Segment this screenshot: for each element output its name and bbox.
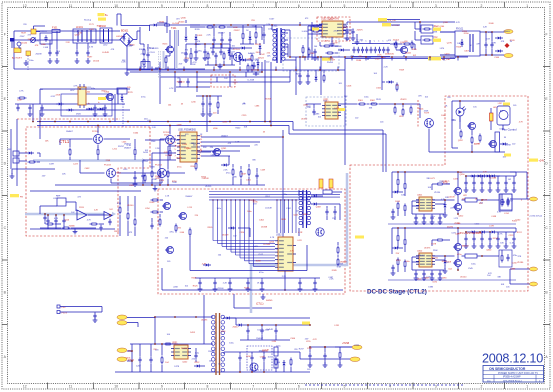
svg-text:CN2: CN2 (7, 149, 12, 151)
red dashed link H (417, 100, 419, 128)
capacitor C501 (139, 357, 141, 360)
svg-text:C223: C223 (509, 235, 515, 237)
wire IC1 hookup (310, 26, 312, 31)
svg-text:C590: C590 (34, 41, 40, 43)
svg-text:2008.12.10: 2008.12.10 (482, 352, 543, 366)
wire U301 out (338, 103, 357, 105)
svg-text:33K: 33K (369, 107, 373, 109)
wire out taps (510, 171, 527, 173)
diode D140 (56, 103, 59, 105)
svg-text:473: 473 (228, 143, 232, 145)
resistor R41b (404, 182, 406, 184)
transistor Q602 (490, 141, 497, 148)
svg-text:4.7K: 4.7K (164, 152, 169, 154)
resistor R301 (358, 103, 360, 105)
svg-text:4.7K: 4.7K (89, 46, 94, 48)
svg-text:SGND: SGND (266, 300, 273, 302)
subcircuit box R41 (499, 194, 512, 211)
svg-text:104: 104 (487, 275, 491, 277)
svg-text:220: 220 (210, 147, 214, 149)
wire K bottom bus (195, 277, 320, 279)
svg-text:ZD417: ZD417 (233, 327, 240, 329)
svg-text:105: 105 (185, 49, 189, 51)
svg-text:C249: C249 (17, 99, 23, 101)
boxed resistor R141 (421, 36, 433, 44)
svg-text:LL4148: LL4148 (248, 80, 256, 82)
svg-text:U201 FSDM0565: U201 FSDM0565 (178, 130, 196, 132)
aux winding parts (176, 86, 210, 88)
svg-text:5: 5 (175, 149, 177, 151)
svg-text:105: 105 (232, 46, 236, 48)
svg-text:R529: R529 (399, 70, 405, 72)
svg-text:Q201: Q201 (221, 148, 227, 150)
connector fuse box top (31, 29, 36, 34)
resistor R42d (436, 239, 438, 241)
resistor R212 (151, 170, 153, 172)
svg-text:ZD220: ZD220 (454, 223, 461, 225)
svg-text:L530: L530 (272, 341, 277, 343)
svg-text:ZD166: ZD166 (218, 288, 225, 290)
wire aux row (40, 88, 130, 90)
wire M secondary (224, 351, 300, 353)
shunt U502 (275, 358, 277, 360)
svg-text:D497: D497 (49, 163, 55, 165)
svg-text:12: 12 (23, 4, 27, 8)
svg-text:105: 105 (145, 150, 149, 152)
svg-text:470u: 470u (283, 194, 287, 196)
svg-text:10: 10 (114, 4, 118, 8)
svg-text:104: 104 (167, 334, 171, 336)
diode D41l (392, 191, 395, 193)
wire U201 left pins (160, 138, 176, 140)
svg-text:470u: 470u (513, 255, 517, 257)
svg-text:A: A (4, 355, 7, 359)
svg-text:ZD299: ZD299 (320, 37, 327, 39)
svg-text:1K: 1K (246, 30, 249, 32)
net label P5V (117, 315, 127, 320)
svg-text:1N4007: 1N4007 (124, 148, 132, 150)
svg-text:0.1R: 0.1R (337, 267, 342, 269)
capacitor C104 (204, 49, 206, 52)
svg-text:2.2K: 2.2K (223, 283, 228, 285)
svg-text:2.2K: 2.2K (152, 127, 157, 129)
svg-text:10K: 10K (192, 64, 196, 66)
svg-text:10K: 10K (500, 242, 504, 244)
capacitor C301 (313, 109, 315, 112)
diode D303 (228, 227, 231, 229)
subcircuit box L (500, 194, 512, 210)
svg-text:L583: L583 (442, 277, 447, 279)
svg-text:12: 12 (23, 385, 27, 389)
svg-text:25V: 25V (253, 204, 257, 206)
svg-text:ZD140: ZD140 (21, 42, 28, 44)
svg-text:L251: L251 (113, 149, 118, 151)
svg-text:10K: 10K (45, 141, 49, 143)
svg-text:100u: 100u (91, 88, 95, 90)
resistor R42b (404, 238, 406, 240)
svg-text:+5VSB: +5VSB (342, 343, 350, 345)
svg-text:25V: 25V (396, 253, 400, 255)
wire left mid (37, 152, 40, 154)
svg-text:A: A (545, 355, 548, 359)
svg-text:4.7K: 4.7K (456, 22, 461, 24)
svg-text:R445: R445 (206, 58, 212, 60)
wire vcc top (196, 95, 222, 97)
resistor R330 (337, 246, 339, 248)
svg-text:LL4148: LL4148 (262, 330, 270, 332)
resistor R206 (247, 64, 249, 66)
svg-text:104: 104 (168, 105, 172, 107)
svg-text:D103: D103 (197, 35, 203, 37)
capacitor C510 (247, 328, 249, 331)
net label LED yellow (433, 39, 441, 42)
svg-text:104: 104 (165, 362, 169, 364)
svg-text:ZD292: ZD292 (447, 227, 454, 229)
svg-text:R371: R371 (396, 260, 402, 262)
svg-text:ZD389: ZD389 (181, 348, 188, 350)
capacitor C141 (41, 105, 43, 108)
wire K bottom rail (162, 289, 343, 291)
svg-text:ZD158: ZD158 (450, 58, 457, 60)
svg-text:220K: 220K (451, 120, 456, 122)
svg-text:1N4007: 1N4007 (256, 338, 264, 340)
svg-text:C: C (4, 226, 7, 230)
svg-text:4.7K: 4.7K (498, 234, 503, 236)
svg-text:220: 220 (450, 207, 454, 209)
clamp resistor R108 (158, 51, 160, 78)
svg-text:4.7K: 4.7K (497, 212, 502, 214)
svg-text:D278: D278 (174, 366, 180, 368)
svg-text:ZD372: ZD372 (301, 119, 308, 121)
capacitor C212 (142, 173, 144, 176)
svg-text:Q292: Q292 (458, 140, 464, 142)
svg-text:LL4148: LL4148 (489, 178, 497, 180)
svg-text:220: 220 (213, 113, 217, 115)
svg-text:2.2K: 2.2K (488, 32, 493, 34)
svg-text:102: 102 (233, 235, 237, 237)
yellow part L2 (329, 179, 333, 188)
svg-text:M: M (500, 109, 503, 113)
net label fan vcc (503, 103, 510, 106)
svg-text:25V: 25V (251, 20, 255, 22)
inductor L301 (323, 190, 332, 194)
svg-text:L378: L378 (489, 226, 494, 228)
capacitor C321 (334, 209, 336, 212)
diode row D42 (469, 231, 472, 233)
svg-text:100u: 100u (459, 43, 463, 45)
capacitor C503 (195, 353, 197, 356)
svg-text:L223: L223 (73, 164, 78, 166)
svg-text:ZD480: ZD480 (69, 225, 76, 227)
net highlight feedback (pale blue) (25, 213, 104, 216)
junction dots extra (139, 68, 141, 70)
net label out3 (530, 282, 538, 286)
svg-text:220K: 220K (151, 141, 156, 143)
net label 5VSB mid (302, 322, 310, 325)
svg-text:2.2K: 2.2K (282, 276, 287, 278)
transformer T201 main (276, 28, 278, 63)
svg-text:105: 105 (318, 116, 322, 118)
capacitor C42d (392, 265, 394, 268)
svg-text:100u: 100u (29, 60, 33, 62)
wire relay hookup (480, 31, 504, 33)
net highlight bus right (pale blue) (251, 173, 347, 313)
svg-text:470u: 470u (141, 96, 145, 98)
svg-text:C482: C482 (85, 168, 91, 170)
svg-text:R302: R302 (370, 100, 376, 102)
mosfet Q42a (455, 244, 462, 251)
svg-text:(CTL1): (CTL1) (256, 303, 264, 306)
svg-text:220: 220 (404, 41, 408, 43)
svg-text:KA431: KA431 (248, 52, 255, 55)
svg-text:25V: 25V (177, 228, 181, 230)
svg-text:33K: 33K (252, 159, 256, 161)
svg-text:LL4148: LL4148 (265, 208, 273, 210)
wire top net links (387, 19, 420, 21)
ic U201 PWM controller (180, 132, 197, 162)
svg-text:U501: U501 (172, 343, 178, 345)
resistor R41a (397, 178, 399, 180)
svg-text:DC-DC Stage (CTL2): DC-DC Stage (CTL2) (367, 289, 427, 296)
svg-text:L411: L411 (123, 169, 128, 171)
svg-text:R305: R305 (208, 227, 214, 229)
optocoupler PC203 (107, 169, 116, 178)
bridge rectifier BD101 (120, 33, 133, 46)
wire M left (127, 350, 132, 352)
svg-text:D383: D383 (428, 287, 434, 289)
capacitor C131 (491, 42, 493, 45)
ic U601 vertical (495, 132, 500, 152)
svg-text:F: F (545, 33, 547, 37)
svg-text:4.7K: 4.7K (73, 86, 78, 88)
resistor R501 (161, 356, 163, 358)
svg-text:L546: L546 (180, 232, 185, 234)
capacitor C508 (324, 353, 326, 356)
net label P3V3 (117, 357, 127, 362)
capacitor C336 (314, 280, 316, 283)
svg-text:B: B (4, 290, 7, 294)
svg-text:R326: R326 (195, 29, 201, 31)
net label fan gnd (504, 154, 511, 157)
svg-text:1K: 1K (396, 85, 399, 87)
svg-text:U302: U302 (276, 235, 282, 237)
svg-text:L297: L297 (498, 103, 503, 105)
net label ACL (98, 13, 105, 16)
svg-text:D245: D245 (395, 201, 401, 203)
startup resistors R101 R102 (143, 48, 145, 50)
svg-text:Q286: Q286 (222, 121, 228, 123)
terminal block TP201 (13, 151, 19, 156)
mosfet Q101 (167, 46, 174, 53)
svg-text:Q180: Q180 (181, 18, 187, 20)
svg-text:2.2K: 2.2K (141, 54, 146, 56)
svg-text:1N4007: 1N4007 (462, 246, 470, 248)
svg-text:L596: L596 (213, 128, 218, 130)
svg-text:ZD524: ZD524 (258, 57, 265, 59)
svg-text:102: 102 (503, 157, 507, 159)
resistor R41c (397, 202, 399, 204)
svg-text:Q469: Q469 (316, 207, 322, 209)
svg-text:2.2K: 2.2K (94, 210, 99, 212)
wire sec rails drop (295, 60, 297, 95)
svg-text:9: 9 (161, 385, 163, 389)
junction red (505, 43, 510, 48)
svg-text:R400: R400 (236, 127, 242, 129)
cap row center2 (207, 52, 209, 54)
svg-text:Q202: Q202 (182, 361, 188, 363)
svg-text:R232: R232 (195, 362, 201, 364)
transistor Q201 (214, 149, 221, 156)
svg-text:LL4148: LL4148 (166, 155, 174, 157)
net label out2 (530, 267, 538, 271)
cap row center1 (213, 37, 215, 40)
svg-text:33K: 33K (497, 277, 501, 279)
ground primary (126, 70, 128, 73)
region box CTL1 (red dashed) (26, 127, 150, 236)
optocoupler PC301 (425, 119, 434, 128)
svg-text:C160: C160 (494, 57, 500, 59)
svg-text:220K: 220K (424, 110, 429, 112)
svg-text:2.2K: 2.2K (207, 34, 212, 36)
svg-text:LL4148: LL4148 (335, 46, 343, 48)
ground center rows (219, 64, 221, 67)
svg-text:L215: L215 (188, 207, 193, 209)
svg-text:C307: C307 (464, 51, 470, 53)
svg-text:ZD373: ZD373 (424, 248, 431, 250)
svg-text:L348: L348 (44, 47, 49, 49)
svg-text:PC204: PC204 (155, 165, 162, 167)
comparator U203 (104, 212, 112, 220)
svg-text:POWER SUPPLY UNIT FOR LCD TV: POWER SUPPLY UNIT FOR LCD TV (498, 372, 538, 375)
resistor R601 (460, 130, 462, 132)
svg-text:4.7K: 4.7K (519, 122, 524, 124)
svg-text:C438: C438 (491, 216, 497, 218)
svg-text:220: 220 (165, 238, 169, 240)
transistor Q103 (401, 47, 408, 54)
svg-text:1N4007: 1N4007 (221, 136, 229, 138)
svg-text:Q167: Q167 (75, 35, 81, 37)
svg-text:3: 3 (435, 4, 437, 8)
aux winding diode D102 (185, 34, 187, 37)
svg-text:ZD267: ZD267 (234, 30, 241, 32)
svg-text:47K: 47K (35, 45, 39, 47)
svg-text:220: 220 (23, 24, 27, 26)
svg-text:4.7K: 4.7K (270, 237, 275, 239)
svg-text:C258: C258 (506, 145, 512, 147)
svg-text:25V: 25V (179, 63, 183, 65)
svg-text:102: 102 (224, 78, 228, 80)
wire fan U302 staircase (212, 200, 214, 241)
resistor network top B (206, 26, 208, 28)
svg-text:47K: 47K (463, 195, 467, 197)
capacitor C310 (299, 73, 301, 76)
wire LED feeds (414, 22, 416, 29)
fan motor M601 (497, 106, 510, 125)
capacitor C106 (220, 49, 222, 52)
capacitor C41d (392, 209, 394, 212)
svg-text:LL4148: LL4148 (116, 36, 124, 38)
region box main secondary (red dashed) (158, 189, 345, 294)
resistor R110 (312, 25, 314, 27)
boxed resistor R140 (421, 25, 433, 33)
common-mode choke LF102 (100, 28, 112, 43)
svg-text:L255: L255 (306, 341, 311, 343)
svg-text:D383: D383 (303, 214, 309, 216)
svg-text:C518: C518 (347, 85, 353, 87)
mosfet Q41b (455, 204, 462, 211)
svg-text:D185: D185 (412, 49, 418, 51)
svg-text:U402: U402 (417, 251, 423, 253)
drive parts K (159, 218, 161, 220)
capacitor C210 (202, 101, 204, 104)
svg-text:220: 220 (294, 349, 298, 351)
svg-text:ZD116: ZD116 (93, 61, 100, 63)
feedback box M (247, 346, 272, 370)
svg-text:4.7K: 4.7K (313, 339, 318, 341)
svg-text:C592: C592 (432, 282, 438, 284)
wire sec drops (299, 57, 301, 70)
diode loop K (203, 264, 206, 266)
svg-text:D167: D167 (270, 19, 276, 21)
svg-text:ZD147: ZD147 (175, 146, 182, 148)
svg-text:Q350: Q350 (460, 174, 466, 176)
svg-text:R255: R255 (163, 44, 169, 46)
svg-text:Q164: Q164 (439, 26, 445, 28)
svg-text:100u: 100u (405, 261, 409, 263)
component box J (57, 198, 66, 206)
diode D311 (386, 81, 389, 83)
svg-text:L317: L317 (399, 116, 404, 118)
snubber diode D101 (151, 24, 154, 26)
svg-text:473: 473 (176, 19, 180, 21)
net label PS-ON top (378, 18, 387, 21)
yellow part L1 (319, 179, 323, 188)
svg-text:R140: R140 (150, 202, 156, 204)
svg-text:1K: 1K (257, 282, 260, 284)
svg-text:33K: 33K (233, 177, 237, 179)
svg-text:C545: C545 (468, 268, 474, 270)
svg-text:4: 4 (389, 4, 391, 8)
svg-text:1N4007: 1N4007 (346, 33, 354, 35)
svg-text:100u: 100u (217, 208, 221, 210)
diode D130 (495, 37, 498, 39)
svg-text:47K: 47K (111, 49, 115, 51)
svg-text:C: C (374, 41, 376, 43)
svg-text:IP5EB-4 A2SMP: IP5EB-4 A2SMP (503, 376, 521, 379)
svg-text:ZD318: ZD318 (265, 99, 272, 101)
svg-text:473: 473 (129, 232, 133, 234)
wire U201 right pins (201, 136, 283, 138)
svg-text:470u: 470u (169, 232, 173, 234)
svg-text:105: 105 (167, 261, 171, 263)
capacitor C505 (251, 355, 253, 358)
resistor R210 (217, 101, 219, 103)
diode D602 (500, 143, 503, 145)
resistor R213 (159, 170, 161, 172)
ic U401 buck controller (419, 197, 432, 211)
svg-text:Q138: Q138 (443, 22, 449, 24)
svg-text:C171: C171 (89, 24, 95, 26)
transistor Q601 (469, 123, 476, 130)
resistor R203 (69, 148, 71, 150)
mosfet Q301 (164, 203, 171, 210)
parts under IC1 (302, 46, 304, 48)
svg-text:1N4007: 1N4007 (208, 351, 216, 353)
svg-text:ZD209: ZD209 (222, 234, 229, 236)
svg-text:104: 104 (218, 254, 222, 256)
svg-text:Q383: Q383 (314, 114, 320, 116)
ac plug mark (10, 38, 15, 42)
